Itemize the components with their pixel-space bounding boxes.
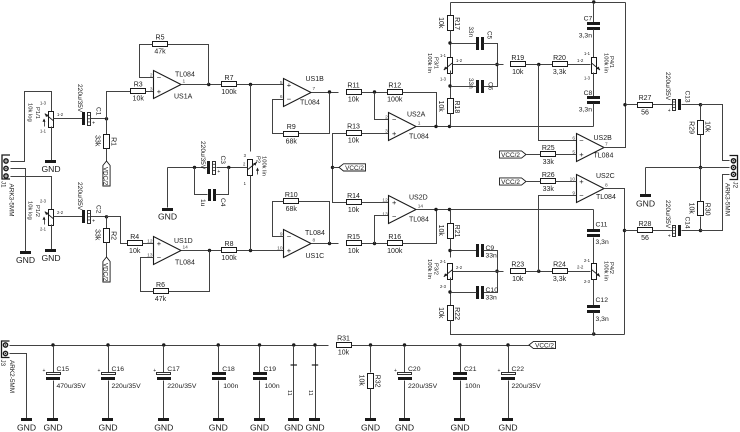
svg-text:10k: 10k (512, 69, 524, 76)
svg-text:TL084: TL084 (305, 230, 325, 237)
svg-text:10k: 10k (704, 121, 711, 133)
svg-text:R26: R26 (542, 172, 555, 179)
svg-text:P3/1: P3/1 (433, 57, 439, 69)
svg-text:100n: 100n (265, 383, 280, 390)
svg-text:GND: GND (250, 422, 269, 432)
svg-text:GND: GND (98, 422, 117, 432)
svg-text:33k: 33k (543, 159, 555, 166)
svg-text:7: 7 (605, 141, 608, 147)
svg-text:+: + (498, 368, 501, 374)
svg-text:US1D: US1D (174, 238, 193, 245)
svg-text:R12: R12 (388, 82, 401, 89)
svg-text:+: + (287, 81, 292, 90)
svg-text:C10: C10 (486, 287, 499, 294)
svg-text:ARK3-5MM: ARK3-5MM (8, 184, 15, 217)
svg-text:R32: R32 (374, 375, 381, 388)
svg-text:1-3: 1-3 (40, 101, 47, 106)
svg-text:P2: P2 (255, 156, 261, 163)
svg-text:100k lin: 100k lin (603, 261, 609, 281)
svg-text:10k: 10k (437, 17, 444, 29)
svg-text:+: + (287, 246, 292, 255)
svg-text:220u/35V: 220u/35V (112, 383, 142, 390)
svg-text:−: − (392, 212, 397, 221)
svg-text:+: + (217, 169, 220, 175)
svg-text:220u/35V: 220u/35V (408, 383, 438, 390)
svg-text:1-3: 1-3 (440, 77, 447, 82)
svg-text:C15: C15 (57, 366, 70, 373)
svg-text:1-1: 1-1 (440, 53, 447, 58)
svg-text:3,3n: 3,3n (579, 33, 592, 40)
svg-text:C22: C22 (512, 366, 525, 373)
svg-text:GND: GND (305, 422, 324, 432)
svg-text:11: 11 (307, 390, 313, 396)
svg-text:1-2: 1-2 (577, 58, 584, 63)
svg-text:+: + (43, 368, 46, 374)
svg-text:100n: 100n (223, 383, 238, 390)
svg-text:TL084: TL084 (409, 134, 429, 141)
svg-text:10k: 10k (348, 97, 360, 104)
svg-text:C8: C8 (584, 90, 593, 97)
svg-text:1-2: 1-2 (57, 112, 64, 117)
svg-text:GND: GND (209, 422, 228, 432)
svg-text:100n: 100n (465, 383, 480, 390)
svg-text:+: + (579, 150, 584, 159)
svg-text:+: + (579, 177, 584, 186)
svg-text:33n: 33n (486, 253, 498, 260)
svg-text:C11: C11 (596, 222, 608, 229)
svg-text:ARK3-5MM: ARK3-5MM (724, 183, 731, 216)
svg-text:C4: C4 (219, 198, 226, 207)
svg-text:7: 7 (313, 86, 316, 92)
svg-text:−: − (392, 115, 397, 124)
svg-text:3,3k: 3,3k (553, 276, 567, 283)
svg-text:2-3: 2-3 (440, 284, 447, 289)
svg-text:R1: R1 (110, 137, 117, 146)
svg-text:R28: R28 (639, 221, 652, 228)
svg-text:100k: 100k (387, 248, 403, 255)
svg-text:56: 56 (641, 235, 649, 242)
svg-text:C9: C9 (486, 245, 495, 252)
svg-text:2-1: 2-1 (40, 227, 47, 232)
svg-text:+: + (98, 368, 101, 374)
svg-text:R3: R3 (134, 81, 143, 88)
svg-text:33n: 33n (486, 295, 498, 302)
svg-text:R27: R27 (639, 95, 652, 102)
svg-text:+: + (392, 129, 397, 138)
svg-text:C1: C1 (95, 107, 102, 116)
svg-text:14: 14 (418, 203, 424, 209)
svg-text:10k: 10k (338, 350, 350, 357)
svg-text:10k: 10k (133, 96, 145, 103)
svg-text:R6: R6 (156, 282, 165, 289)
svg-text:C14: C14 (684, 217, 691, 229)
svg-text:R30: R30 (704, 203, 711, 216)
svg-text:470u/35V: 470u/35V (57, 383, 87, 390)
svg-text:TL084: TL084 (175, 72, 195, 79)
svg-text:GND: GND (41, 164, 60, 174)
svg-text:10k: 10k (437, 307, 444, 319)
svg-text:US2C: US2C (596, 173, 615, 180)
svg-text:1: 1 (183, 78, 186, 84)
svg-text:33k: 33k (543, 186, 555, 193)
svg-text:R29: R29 (687, 121, 694, 134)
svg-text:R7: R7 (225, 75, 234, 82)
svg-text:VCC/2: VCC/2 (345, 165, 364, 172)
svg-text:47k: 47k (154, 49, 166, 56)
svg-text:10k: 10k (348, 248, 360, 255)
svg-text:+: + (668, 234, 671, 240)
svg-text:3,3k: 3,3k (553, 69, 567, 76)
svg-text:2-2: 2-2 (57, 210, 64, 215)
svg-text:P1/1: P1/1 (34, 107, 40, 119)
svg-text:R23: R23 (511, 262, 524, 269)
svg-text:GND: GND (154, 422, 173, 432)
svg-text:13: 13 (382, 211, 388, 217)
svg-text:1-3: 1-3 (584, 76, 591, 81)
svg-text:+: + (394, 368, 397, 374)
svg-text:P1/2: P1/2 (34, 205, 40, 217)
svg-text:3: 3 (150, 86, 153, 92)
svg-text:−: − (157, 253, 162, 262)
svg-text:220u/35V: 220u/35V (664, 200, 671, 229)
svg-text:33k: 33k (93, 229, 100, 241)
svg-text:TL084: TL084 (594, 153, 614, 160)
svg-text:TL084: TL084 (596, 194, 616, 201)
svg-text:C17: C17 (167, 366, 180, 373)
svg-text:+: + (157, 239, 162, 248)
svg-text:GND: GND (450, 422, 469, 432)
svg-text:10k: 10k (129, 248, 141, 255)
svg-text:C2: C2 (95, 205, 102, 214)
svg-text:10k: 10k (437, 100, 444, 112)
svg-text:GND: GND (41, 253, 60, 263)
svg-text:+: + (153, 368, 156, 374)
svg-text:100k lin: 100k lin (261, 156, 267, 176)
svg-text:10k: 10k (437, 225, 444, 237)
svg-text:47k: 47k (155, 296, 167, 303)
svg-text:10: 10 (277, 245, 283, 251)
svg-text:100k lin: 100k lin (426, 259, 432, 279)
svg-text:12: 12 (382, 197, 388, 203)
svg-text:2-1: 2-1 (440, 259, 447, 264)
svg-text:C12: C12 (596, 297, 609, 304)
svg-text:10k: 10k (687, 203, 694, 215)
svg-text:C6: C6 (486, 82, 493, 91)
svg-text:100k: 100k (221, 255, 237, 262)
svg-text:C21: C21 (464, 366, 477, 373)
svg-text:VCC/2: VCC/2 (501, 179, 520, 186)
svg-text:C20: C20 (408, 366, 421, 373)
svg-text:2-2: 2-2 (577, 265, 584, 270)
svg-text:R25: R25 (542, 145, 555, 152)
svg-text:GND: GND (17, 422, 36, 432)
svg-text:J1: J1 (0, 181, 7, 188)
svg-text:J3: J3 (0, 360, 6, 367)
svg-text:220u/35V: 220u/35V (76, 84, 83, 113)
svg-text:GND: GND (361, 422, 380, 432)
svg-text:3,3n: 3,3n (596, 316, 609, 323)
svg-text:VCC/2: VCC/2 (535, 342, 554, 349)
svg-text:VDC/2: VDC/2 (102, 167, 109, 186)
svg-text:TL084: TL084 (175, 260, 195, 267)
svg-text:R16: R16 (388, 234, 401, 241)
svg-text:R5: R5 (156, 34, 165, 41)
svg-text:GND: GND (43, 422, 62, 432)
svg-text:C3: C3 (219, 156, 226, 165)
svg-text:2-1: 2-1 (584, 258, 591, 263)
svg-text:R19: R19 (511, 55, 524, 62)
svg-text:R4: R4 (130, 234, 139, 241)
svg-text:10k log: 10k log (27, 103, 33, 122)
svg-text:−: − (287, 232, 292, 241)
svg-text:3,3n: 3,3n (579, 107, 592, 114)
svg-text:+: + (157, 87, 162, 96)
svg-text:68k: 68k (286, 206, 298, 213)
svg-text:R21: R21 (453, 225, 460, 238)
svg-text:56: 56 (641, 109, 649, 116)
svg-text:33n: 33n (467, 27, 474, 38)
svg-text:220u/35V: 220u/35V (76, 182, 83, 211)
svg-text:100k: 100k (387, 97, 403, 104)
svg-text:68k: 68k (286, 138, 298, 145)
svg-text:US2B: US2B (594, 135, 613, 142)
svg-text:2-2: 2-2 (456, 265, 463, 270)
svg-text:GND: GND (498, 422, 517, 432)
svg-text:US1A: US1A (174, 94, 193, 101)
svg-text:R11: R11 (347, 82, 359, 89)
svg-text:R24: R24 (553, 262, 566, 269)
svg-text:3: 3 (385, 128, 388, 134)
svg-text:9: 9 (572, 190, 575, 196)
svg-text:10k log: 10k log (27, 201, 33, 220)
svg-text:6: 6 (280, 94, 283, 100)
svg-text:10k: 10k (512, 276, 524, 283)
svg-text:+: + (668, 108, 671, 114)
svg-text:R20: R20 (553, 55, 566, 62)
svg-text:100k: 100k (221, 89, 237, 96)
svg-text:1-1: 1-1 (40, 129, 47, 134)
svg-text:10k: 10k (348, 138, 360, 145)
svg-text:1u: 1u (199, 199, 206, 207)
svg-text:R31: R31 (337, 335, 350, 342)
svg-text:GND: GND (636, 198, 655, 208)
svg-text:+: + (92, 218, 95, 224)
svg-text:33n: 33n (467, 78, 474, 89)
svg-text:+: + (392, 198, 397, 207)
svg-text:R13: R13 (347, 123, 360, 130)
svg-text:100k lin: 100k lin (426, 53, 432, 73)
svg-text:8: 8 (313, 237, 316, 243)
svg-text:33k: 33k (93, 135, 100, 147)
svg-text:US2D: US2D (409, 195, 428, 202)
svg-text:−: − (287, 95, 292, 104)
svg-text:R14: R14 (347, 193, 360, 200)
svg-text:−: − (579, 191, 584, 200)
svg-text:R9: R9 (287, 124, 296, 131)
svg-text:GND: GND (284, 422, 303, 432)
svg-text:P3/2: P3/2 (433, 263, 439, 275)
svg-text:220u/35V: 220u/35V (664, 72, 671, 101)
svg-text:C16: C16 (112, 366, 125, 373)
svg-text:1: 1 (418, 120, 421, 126)
svg-text:C18: C18 (222, 366, 235, 373)
svg-text:J2: J2 (732, 182, 739, 189)
svg-text:R18: R18 (453, 100, 460, 113)
svg-text:2-3: 2-3 (584, 279, 591, 284)
svg-text:US1C: US1C (306, 253, 325, 260)
svg-text:R22: R22 (453, 307, 460, 320)
svg-text:GND: GND (158, 211, 177, 221)
svg-text:1-2: 1-2 (456, 58, 463, 63)
svg-text:−: − (579, 136, 584, 145)
svg-text:R15: R15 (347, 234, 360, 241)
svg-text:R8: R8 (225, 241, 234, 248)
svg-text:TL084: TL084 (300, 100, 320, 107)
svg-text:−: − (157, 73, 162, 82)
svg-text:R10: R10 (285, 192, 298, 199)
svg-text:R2: R2 (110, 231, 117, 240)
svg-text:3,3n: 3,3n (596, 239, 609, 246)
svg-text:ARK2-5MM: ARK2-5MM (8, 360, 15, 393)
svg-text:C5: C5 (486, 31, 493, 40)
svg-text:220u/35V: 220u/35V (167, 383, 197, 390)
svg-text:10k: 10k (357, 375, 364, 387)
svg-text:100k lin: 100k lin (603, 53, 609, 73)
svg-text:2-3: 2-3 (40, 199, 47, 204)
svg-text:12: 12 (147, 238, 153, 244)
svg-text:TL084: TL084 (409, 217, 429, 224)
svg-text:VDC/2: VDC/2 (102, 263, 109, 282)
svg-text:220u/35V: 220u/35V (512, 383, 542, 390)
svg-text:6: 6 (572, 135, 575, 141)
svg-text:14: 14 (183, 244, 189, 250)
svg-text:VCC/2: VCC/2 (501, 152, 520, 159)
svg-text:11: 11 (286, 390, 292, 396)
svg-text:1-1: 1-1 (584, 51, 591, 56)
svg-text:5: 5 (280, 80, 283, 86)
svg-text:GND: GND (16, 255, 35, 265)
svg-text:C19: C19 (264, 366, 277, 373)
svg-text:C7: C7 (584, 16, 593, 23)
svg-text:US1B: US1B (306, 76, 325, 83)
svg-text:+: + (92, 120, 95, 126)
svg-text:2: 2 (385, 114, 388, 120)
svg-text:8: 8 (605, 182, 608, 188)
svg-text:GND: GND (395, 422, 414, 432)
svg-text:US2A: US2A (407, 112, 426, 119)
svg-text:10k: 10k (348, 207, 360, 214)
svg-text:C13: C13 (684, 91, 691, 103)
svg-text:R17: R17 (453, 17, 460, 30)
svg-text:220u/35V: 220u/35V (199, 141, 206, 170)
